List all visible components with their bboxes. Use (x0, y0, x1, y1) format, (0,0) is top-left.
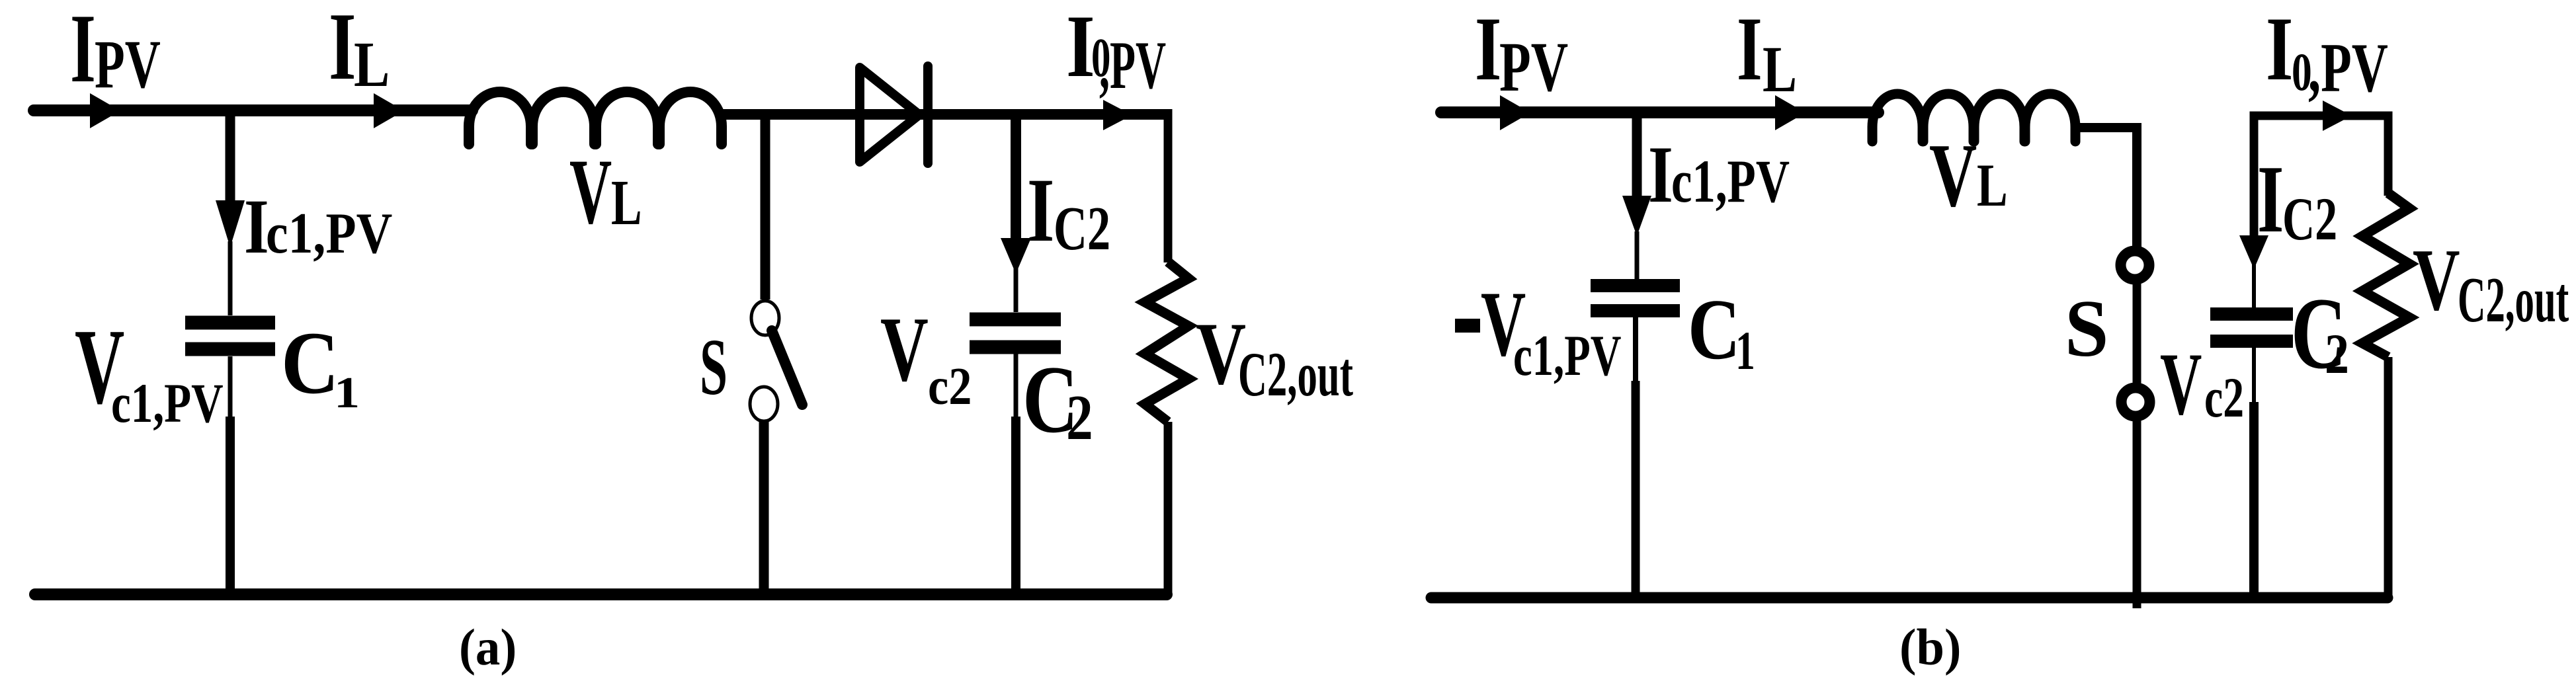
svg-text:C2: C2 (1054, 194, 1110, 262)
arrow I_C2 direction (a) (1001, 238, 1031, 274)
wire C1 to bottom rail (b) (1633, 317, 1638, 383)
svg-text:I: I (70, 0, 96, 103)
wire bottom rail (a) (35, 588, 1167, 600)
wire top input (b) (1441, 106, 1878, 118)
svg-text:I: I (1648, 129, 1673, 219)
svg-text:I: I (2266, 0, 2293, 99)
svg-text:2: 2 (1066, 382, 1093, 453)
arrow I_C2 direction (b) (2239, 235, 2268, 269)
svg-text:V: V (2413, 231, 2460, 329)
svg-text:c1,PV: c1,PV (1671, 147, 1790, 215)
svg-text:C2: C2 (2282, 185, 2337, 253)
svg-text:S: S (700, 323, 727, 412)
arrow I_L current direction (a) (374, 93, 404, 128)
wire arrow to capacitor C2 (b) (2252, 264, 2256, 308)
arrow I_L current direction (b) (1775, 95, 1806, 130)
wire top input (a): PV node to inductor (34, 104, 472, 116)
svg-text:c2: c2 (928, 358, 972, 416)
svg-text:V: V (880, 298, 929, 401)
svg-text:PV: PV (95, 26, 161, 102)
wire top (a): inductor to output corner (720, 109, 1168, 120)
svg-text:L: L (354, 29, 390, 100)
svg-text:I: I (1475, 0, 1501, 100)
capacitor C1 (b) (1591, 279, 1680, 292)
svg-text:I: I (1027, 159, 1054, 261)
node switch junction (a) (761, 114, 770, 300)
svg-text:c1,PV: c1,PV (1513, 323, 1621, 387)
svg-text:I: I (244, 184, 269, 270)
svg-text:1: 1 (334, 368, 360, 417)
svg-text:L: L (1763, 33, 1797, 106)
svg-text:L: L (1977, 151, 2008, 219)
arrow I_PV current direction (b) (1500, 95, 1530, 130)
svg-text:c2: c2 (2204, 367, 2244, 429)
wire bottom rail (b) (1431, 592, 2388, 604)
svg-text:I: I (1737, 0, 1763, 100)
wire arrow to capacitor C1 (b) (1635, 231, 1640, 279)
inductor L (b) (1872, 94, 2075, 141)
wire arrow to capacitor C2 (a) (1014, 268, 1018, 312)
switch S upper contact (a) (751, 301, 779, 335)
svg-text:c1,PV: c1,PV (266, 201, 392, 266)
arrow Ic1,PV direction (a) (216, 200, 245, 247)
svg-text:(b): (b) (1899, 618, 1961, 676)
switch S blade (a) (772, 331, 802, 405)
wire resistor to bottom rail (b) (2384, 357, 2393, 598)
labels (a) (70, 0, 1353, 676)
capacitor C2 (b) (2210, 307, 2293, 321)
svg-text:,PV: ,PV (2308, 29, 2388, 106)
capacitor C1 (a) (185, 316, 275, 330)
svg-text:(a): (a) (459, 619, 517, 676)
arrow I_0,PV direction (a) (1103, 100, 1132, 130)
svg-text:C: C (1688, 282, 1740, 378)
wire C2 loop top (b) (2254, 116, 2388, 238)
resistor load V_C2,out (a) (1145, 262, 1188, 422)
arrow I_0,PV direction (b) (2323, 100, 2352, 131)
svg-text:I: I (2257, 146, 2284, 253)
arrow I_PV current direction (a) (90, 93, 120, 128)
switch S lower contact (a) (750, 387, 778, 421)
wire arrow to capacitor C1 (a) (228, 241, 233, 315)
svg-text:I: I (329, 0, 356, 100)
wire switch to bottom rail (a) (759, 421, 769, 594)
svg-text:C2,out: C2,out (2458, 264, 2569, 336)
diode D (a) (860, 67, 919, 162)
wire C2 to bottom rail (b) (2252, 348, 2256, 405)
svg-text:L: L (611, 168, 642, 239)
wire inductor to switch corner (b) (2071, 128, 2137, 251)
wire C1 to bottom rail (a) (228, 356, 233, 419)
svg-text:1: 1 (1735, 321, 1755, 382)
switch S lower contact (b) (2122, 388, 2150, 417)
labels (b) (1455, 0, 2569, 676)
resistor load V_C2,out (b) (2362, 193, 2409, 357)
node C2 junction (a): shaft (1011, 114, 1021, 243)
node C1 junction (b): shaft (1632, 112, 1642, 200)
svg-text:c1,PV: c1,PV (111, 372, 224, 434)
wire output right side down (a) (1164, 109, 1173, 262)
svg-text:V: V (2160, 335, 2202, 433)
svg-text:2: 2 (2325, 323, 2349, 385)
svg-text:PV: PV (1499, 28, 1568, 106)
svg-text:S: S (2065, 284, 2108, 374)
wire switch vertical through to bottom (b) (2133, 248, 2141, 608)
svg-text:C: C (281, 313, 339, 412)
arrow Ic1,PV direction (b) (1622, 196, 1651, 236)
switch S upper contact (b) (2121, 251, 2149, 280)
svg-text:V: V (1929, 125, 1977, 225)
svg-text:,PV: ,PV (1099, 28, 1166, 103)
capacitor C2 (a) (970, 313, 1061, 327)
svg-text:C2,out: C2,out (1238, 341, 1353, 410)
svg-text:I: I (1066, 0, 1095, 95)
svg-text:V: V (569, 141, 612, 244)
node C1 junction (a): shaft from top wire (226, 110, 235, 203)
inductor L (a) (469, 92, 722, 144)
wire resistor to bottom rail (a) (1164, 422, 1173, 594)
wire C2 to bottom rail (a) (1014, 354, 1018, 419)
label -V_c1,PV (b): minus sign (1455, 319, 1480, 333)
